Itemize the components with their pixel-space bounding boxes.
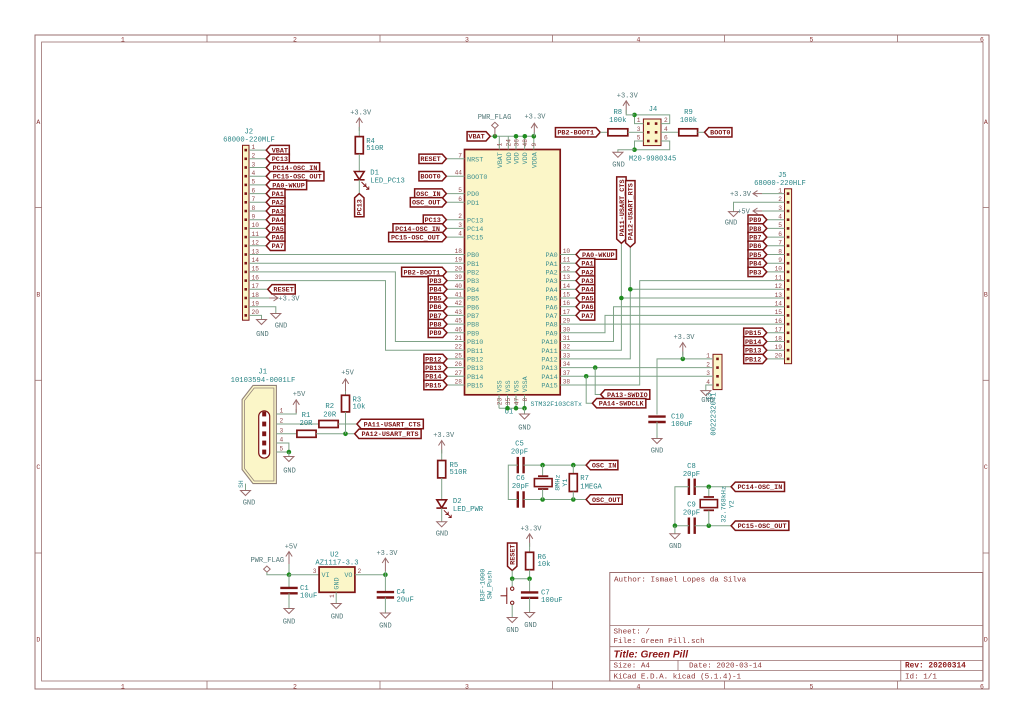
wire +3.3V to R4 [358,127,360,137]
svg-text:20pF: 20pF [511,449,528,457]
global label PA11-USART_CTS at usb [357,419,423,429]
svg-text:C8: C8 [687,463,696,471]
svg-text:PB12: PB12 [467,357,483,365]
svg-text:100uF: 100uF [671,421,693,429]
svg-text:32.768kHz: 32.768kHz [721,486,729,523]
wire R4 to D1 [358,154,360,172]
wire J1 pin2 to R2 [276,423,319,425]
wire J3 pin4 to gnd [706,385,713,391]
wire PA13 to J3 pin2 [560,367,713,369]
svg-text:KiCad E.D.A. kicad (5.1.4)-1: KiCad E.D.A. kicad (5.1.4)-1 [614,673,742,681]
global label PB13 [424,363,447,373]
global label PA7 at J2 pin 12 [266,241,285,251]
svg-text:40: 40 [455,283,463,290]
global label PB7 [428,311,447,321]
global label PB4 [428,285,447,295]
connector J5 68000-220HLF [754,172,806,364]
capacitor C1 [280,585,317,601]
wire C9 to PC15 label [695,525,732,527]
svg-text:PB14: PB14 [467,374,483,382]
svg-text:+3.3V: +3.3V [524,113,546,121]
svg-text:20pF: 20pF [512,483,529,491]
svg-text:26: 26 [455,361,463,368]
wire vss to gnd [524,408,526,414]
global label PB13 at J5 pin 19 [744,346,767,356]
svg-text:Id: 1/1: Id: 1/1 [905,673,937,681]
wire J3 pin1 to +3.3V and C10 [657,359,713,415]
power +3.3V at U2 [376,550,398,571]
wire J4 pins 1,2 to +3.3V [635,115,670,124]
global label RESET at J2 [268,285,295,295]
resistor R3 [342,395,366,412]
svg-text:LED_PC13: LED_PC13 [370,177,405,185]
svg-text:44: 44 [455,170,463,177]
svg-text:C: C [36,464,40,471]
svg-text:R9: R9 [684,109,693,117]
svg-text:PD0: PD0 [467,191,479,199]
svg-text:PA10: PA10 [541,339,557,347]
svg-text:1: 1 [329,594,336,598]
svg-text:VSS: VSS [505,380,512,392]
wire Y2 gnd stem [674,526,676,534]
svg-text:AZ1117-3.3: AZ1117-3.3 [315,559,358,567]
svg-text:68000-220MLF: 68000-220MLF [223,137,275,145]
svg-text:34: 34 [563,361,571,368]
svg-text:GND: GND [651,448,664,456]
wire to gnd J1 [288,452,290,457]
wire C8 to PC14 label [695,486,732,488]
svg-text:PA3: PA3 [545,278,557,286]
svg-text:19: 19 [455,257,463,264]
global label PB2-BOOT1 at mcu [402,267,447,277]
svg-text:PA11: PA11 [541,348,557,356]
svg-text:5: 5 [810,684,814,691]
svg-text:1: 1 [497,143,504,147]
global label PB6 at J5 pin 7 [748,241,767,251]
svg-text:PB6: PB6 [467,304,479,312]
svg-text:10: 10 [563,248,571,255]
svg-text:10k: 10k [538,561,551,569]
svg-text:PC15-OSC_OUT: PC15-OSC_OUT [738,523,787,531]
svg-text:PC15: PC15 [467,235,483,243]
wire PA10 to J5 pin14 [560,307,784,342]
svg-text:+3.3V: +3.3V [278,295,300,303]
svg-text:510R: 510R [366,145,384,153]
svg-text:VDD: VDD [514,152,521,164]
svg-text:PC13: PC13 [467,217,483,225]
wire J2 pin15 to PB10 [249,272,465,342]
svg-text:1: 1 [121,684,125,691]
wire reset row [511,571,513,579]
wire PA9 to J5 pin15 [560,315,784,332]
svg-text:J1: J1 [258,369,267,377]
svg-text:PA12: PA12 [541,357,557,365]
svg-text:Size: A4: Size: A4 [614,663,651,671]
svg-text:PC15-OSC_OUT: PC15-OSC_OUT [391,235,440,243]
svg-text:VDD: VDD [506,152,513,164]
global label PB12 [424,354,447,364]
ground J1 shield [241,491,256,508]
svg-text:GND: GND [725,220,738,228]
svg-text:GND: GND [379,623,392,631]
svg-text:35: 35 [505,398,512,406]
svg-text:43: 43 [455,309,463,316]
svg-text:2: 2 [358,568,362,575]
global label PB3 [428,276,447,286]
wire J1 pin4 to pin5 gnd [276,443,289,452]
svg-text:D: D [984,637,988,644]
svg-text:20R: 20R [323,411,337,419]
ground U2 [331,604,344,622]
svg-text:PA13: PA13 [541,365,557,373]
resistor R9 [679,109,698,136]
svg-text:NRST: NRST [467,156,483,164]
svg-text:PA7: PA7 [272,243,284,251]
svg-text:10uF: 10uF [300,593,317,601]
wire C6 to OSC_OUT [524,499,587,501]
wire J5 pin1 to +3.3V [762,193,785,195]
svg-text:D2: D2 [453,498,462,506]
ground J2 pin20 [256,320,269,340]
svg-text:5: 5 [280,446,284,453]
svg-text:PB15: PB15 [425,382,441,390]
svg-text:+3.3V: +3.3V [730,191,752,199]
title block [610,573,983,682]
wire +5V to R3 [345,392,347,396]
global label OSC_IN at Y1 [586,460,618,470]
svg-text:4: 4 [637,37,641,44]
svg-text:RESET: RESET [420,156,440,164]
capacitor C4 [377,589,414,605]
svg-text:C6: C6 [516,475,525,483]
svg-text:C9: C9 [687,502,696,510]
svg-text:100k: 100k [680,117,697,125]
svg-text:3: 3 [313,568,317,575]
wire PA13 to SWDIO label [595,368,601,395]
ground C7 [524,613,537,631]
wire J2 pin13 to PB0 [249,254,465,256]
wire J4 pin4 to R9 [661,131,679,133]
svg-text:20pF: 20pF [683,471,700,479]
global label PA12-USART_RTS at usb [355,429,421,439]
wire PA12 to J5 pin12 and label [560,247,630,359]
svg-text:Y2: Y2 [728,500,736,508]
shield pin J1 [238,480,245,490]
wire J1 pin3 to R1 [276,433,297,435]
svg-text:37: 37 [563,370,571,377]
svg-text:PB9: PB9 [429,330,441,338]
svg-text:Rev: 20200314: Rev: 20200314 [905,663,966,671]
svg-text:PA12-USART_RTS: PA12-USART_RTS [361,431,418,439]
wire U2 VO to +3.3V junction [355,574,386,576]
wire J4 pins 5,6 to GND [635,141,670,150]
svg-text:PB4: PB4 [467,287,479,295]
svg-text:PC14: PC14 [467,226,483,234]
svg-text:PB7: PB7 [467,313,479,321]
svg-text:3: 3 [465,37,469,44]
resistor R6 [526,552,551,569]
svg-text:LED_PWR: LED_PWR [453,506,484,514]
wire J2 pin20 to gnd [249,315,262,319]
power +3.3V at J2 pin18 [269,295,300,303]
svg-text:PA1: PA1 [545,261,557,269]
global label VBAT at J2 pin 1 [266,145,289,155]
svg-text:PB3: PB3 [467,278,479,286]
svg-text:PA12-USART_RTS: PA12-USART_RTS [628,183,636,240]
wire C4 stem [384,575,386,593]
svg-text:45: 45 [455,318,463,325]
svg-text:PB3: PB3 [749,269,761,277]
global label VBAT [467,132,490,142]
svg-text:+3.3V: +3.3V [433,432,455,440]
svg-text:J4: J4 [649,106,657,114]
resistor R5 [438,461,468,478]
mcu bottom power pins [496,376,529,408]
svg-text:+5V: +5V [285,544,298,552]
svg-text:24: 24 [506,139,513,147]
svg-text:PC13: PC13 [357,199,365,215]
svg-text:R7: R7 [580,475,589,483]
svg-text:STM32F103C8Tx: STM32F103C8Tx [531,401,582,408]
junction J4 gnd [632,147,637,152]
svg-text:PA9: PA9 [545,330,557,338]
svg-text:J5: J5 [778,172,787,180]
svg-text:PA6: PA6 [545,304,557,312]
svg-text:OSC_IN: OSC_IN [592,463,616,471]
wire R1 to PA12 label [316,433,355,435]
svg-text:+3.3V: +3.3V [520,526,542,534]
svg-text:12: 12 [563,265,571,272]
ground J1 pin5 [283,457,296,476]
svg-text:R2: R2 [325,403,334,411]
svg-text:5: 5 [458,187,462,194]
wire PA15 to J5 pin11 [560,281,784,385]
mcu left pin names and numbers [455,152,488,390]
global label PB9 [428,328,447,338]
svg-text:VSSA: VSSA [522,376,529,392]
svg-text:32: 32 [563,344,571,351]
svg-text:BOOT0: BOOT0 [420,174,440,182]
svg-text:29: 29 [563,318,571,325]
global label PA1 at J2 pin 6 [266,189,285,199]
svg-text:20: 20 [455,265,463,272]
global label PB4 at J5 pin 9 [748,259,767,269]
global label PA12-USART_RTS vertical [626,181,636,247]
svg-text:SH: SH [238,480,245,488]
svg-text:+3.3V: +3.3V [376,550,398,558]
capacitor C10 [648,414,692,430]
global label OSC_IN at PD0 [415,189,447,199]
global label PA0-WKUP [576,250,616,260]
junction J4 +3.3V [632,113,637,118]
global label PA4 [576,285,595,295]
global label PC13 at J2 pin 2 [266,154,289,164]
svg-text:A: A [984,119,988,126]
connector J2 pin stubs and numbers [249,144,269,316]
wire C1 to gnd [288,593,290,608]
global label PA6 [576,302,595,312]
global label PA3 [576,276,595,286]
svg-text:14: 14 [563,283,571,290]
svg-text:GND: GND [243,500,256,508]
power +5V at J1 [293,391,306,413]
global label PB12 at J5 pin 20 [744,354,767,364]
connector J5 label stubs [767,220,785,359]
junction vss dots [505,406,527,411]
wire C4 to gnd [384,597,386,613]
svg-text:B: B [984,292,988,299]
svg-text:PB0: PB0 [467,252,479,260]
resistor R4 [355,137,384,154]
svg-text:GND: GND [506,627,519,635]
svg-text:25: 25 [455,352,463,359]
svg-text:Date: 2020-03-14: Date: 2020-03-14 [689,663,762,671]
svg-text:Sheet: /: Sheet: / [614,629,651,637]
svg-text:PB5: PB5 [467,296,479,304]
svg-text:R1: R1 [302,412,311,420]
power +3.3V at J5 [730,191,762,199]
global label PB5 [428,293,447,303]
power +3.3V at J3 [673,334,695,356]
svg-text:GND: GND [701,397,714,405]
wire U2 gnd pin [335,592,337,603]
svg-text:RESET: RESET [273,287,293,295]
wire label to R8 [600,131,608,133]
svg-text:3: 3 [465,684,469,691]
global label PB7 at J5 pin 6 [748,232,767,242]
global label PA7 [576,311,595,321]
svg-text:PWR_FLAG: PWR_FLAG [250,557,284,565]
svg-text:GND: GND [436,531,449,539]
svg-text:PA2: PA2 [545,270,557,278]
capacitor C8 [683,463,700,495]
mcu U1 STM32F103C8Tx body [465,150,582,417]
wire C10 to gnd [656,422,658,439]
capacitor C6 [512,475,529,508]
svg-text:PA11-USART_CTS: PA11-USART_CTS [364,421,421,429]
svg-text:BOOT0: BOOT0 [467,174,487,182]
svg-text:VI: VI [322,572,330,580]
mcu left pin stubs [447,159,465,385]
svg-text:GND: GND [256,331,269,339]
connector J4 M20-9980345 [629,106,676,163]
global label PA2 [576,267,595,277]
global label PB15 [424,380,447,390]
svg-text:39: 39 [455,274,463,281]
svg-text:15: 15 [563,292,571,299]
svg-text:+3.3V: +3.3V [617,92,639,100]
svg-text:9: 9 [531,143,538,147]
ground J2 pin19 [271,314,288,331]
wire J2 pin19 to gnd [249,307,276,314]
power +3.3V at R5 [433,432,455,454]
svg-text:22: 22 [455,344,463,351]
svg-text:GND: GND [669,543,682,551]
svg-text:B: B [36,292,40,299]
svg-text:PB9: PB9 [467,330,479,338]
svg-text:1MEGA: 1MEGA [580,484,602,492]
global label PC14-OSC_IN at mcu [393,224,446,234]
svg-text:C5: C5 [515,441,524,449]
svg-text:PB2: PB2 [467,270,479,278]
svg-text:GND: GND [334,577,342,589]
wire PA11 to J5 pin13 and label [560,243,621,350]
svg-text:PA4: PA4 [545,287,557,295]
switch SW1 B3F-1000 SW_Push [480,569,514,605]
wire R9 to BOOT0 label [698,131,705,133]
wire +3.3V to rail [533,132,535,136]
resistor R7 1MEGA [569,465,602,499]
svg-text:6: 6 [980,37,984,44]
svg-text:PA15: PA15 [541,383,557,391]
svg-text:28: 28 [455,379,463,386]
svg-text:VSS: VSS [497,380,504,392]
svg-text:GND: GND [275,323,288,331]
wire C5 to OSC_IN [524,464,587,466]
wire crystal2 loop left [675,487,689,526]
svg-text:OSC_OUT: OSC_OUT [412,200,441,208]
global label PB8 at J5 pin 5 [748,224,767,234]
power flag PWR_FLAG [478,114,512,136]
global label PB5 at J5 pin 8 [748,250,767,260]
svg-text:VBAT: VBAT [468,134,484,142]
wire PA14 to SWDCLK label [586,376,592,403]
svg-text:6: 6 [458,196,462,203]
mcu right pin stubs PA0-PA7 [560,255,576,316]
svg-text:VDDA: VDDA [531,152,538,168]
svg-text:A: A [36,119,40,126]
svg-text:PWR_FLAG: PWR_FLAG [478,114,512,122]
wire R6 junction to C7 [529,579,531,593]
svg-text:100k: 100k [609,117,626,125]
wire D2 to gnd [441,508,443,522]
junction PA14 swd [584,374,589,379]
wire PA14 to J3 pin3 [560,375,713,377]
mcu top power pins [497,136,539,168]
global label PC14-OSC_IN at Y2 [731,482,784,492]
resistor R8 [608,109,628,136]
global label PA13-SWDIO [601,390,650,400]
svg-text:VDD: VDD [522,152,529,164]
led D2 LED_PWR [436,498,483,518]
svg-text:1: 1 [121,37,125,44]
global label PA4 at J2 pin 9 [266,215,285,225]
svg-text:27: 27 [455,370,463,377]
global label PB6 [428,302,447,312]
global label PB9 at J5 pin 4 [748,215,767,225]
wire +3.3V arrow stem [384,571,386,575]
capacitor C9 [683,502,700,534]
resistor R1 [297,412,316,437]
svg-text:GND: GND [612,162,625,170]
global label PB2-BOOT1 at J4 [555,128,600,138]
svg-text:PA7: PA7 [581,313,593,321]
svg-text:8: 8 [522,398,529,402]
svg-text:3: 3 [280,427,284,434]
wire mcu vss bus [499,407,525,409]
svg-text:PB11: PB11 [467,348,483,356]
svg-text:C: C [984,464,988,471]
svg-text:R8: R8 [613,109,622,117]
global label RESET at NRST [419,154,446,164]
svg-text:GND: GND [283,619,296,627]
svg-text:PA0: PA0 [545,252,557,260]
svg-text:SW_Push: SW_Push [487,571,495,600]
connector J1 pin numbers [280,408,284,453]
global label PC13 below D1 [355,194,365,217]
svg-text:10103594-0001LF: 10103594-0001LF [231,377,296,385]
svg-text:PA14-SWDCLK: PA14-SWDCLK [599,401,645,409]
